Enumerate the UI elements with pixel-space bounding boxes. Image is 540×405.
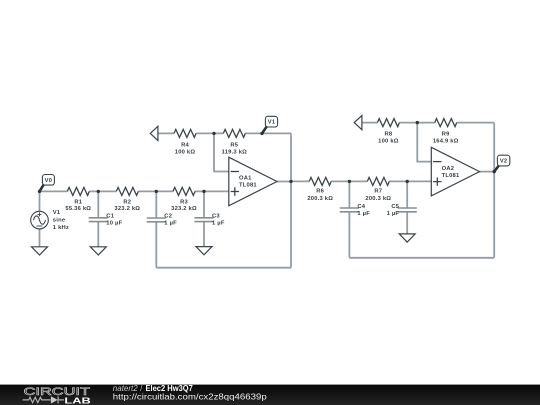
svg-text:LAB: LAB: [64, 396, 90, 405]
svg-text:200.3 kΩ: 200.3 kΩ: [307, 196, 333, 202]
svg-text:1 kHz: 1 kHz: [53, 225, 69, 231]
svg-text:OA2: OA2: [442, 166, 455, 172]
svg-text:C4: C4: [357, 204, 365, 210]
svg-text:V2: V2: [500, 159, 508, 165]
svg-text:R8: R8: [384, 132, 392, 138]
svg-text:1 µF: 1 µF: [212, 221, 225, 227]
svg-text:C2: C2: [164, 214, 172, 220]
svg-text:TL081: TL081: [239, 183, 257, 189]
svg-text:R4: R4: [181, 142, 189, 148]
svg-text:R1: R1: [74, 199, 82, 205]
svg-text:V1: V1: [268, 120, 276, 126]
svg-text:C5: C5: [391, 204, 399, 210]
svg-text:sine: sine: [53, 218, 66, 224]
svg-text:R3: R3: [180, 199, 188, 205]
svg-text:C3: C3: [212, 214, 220, 220]
svg-text:100 kΩ: 100 kΩ: [378, 138, 399, 144]
svg-text:10 µF: 10 µF: [106, 221, 122, 227]
svg-text:55.36 kΩ: 55.36 kΩ: [65, 206, 91, 212]
svg-text:R2: R2: [123, 199, 131, 205]
svg-text:OA1: OA1: [239, 176, 252, 182]
svg-text:R5: R5: [230, 142, 238, 148]
svg-text:TL081: TL081: [442, 173, 460, 179]
svg-text:V1: V1: [53, 210, 61, 216]
svg-text:323.2 kΩ: 323.2 kΩ: [171, 206, 197, 212]
svg-text:C1: C1: [106, 214, 114, 220]
svg-text:R9: R9: [442, 132, 450, 138]
svg-text:1 µF: 1 µF: [357, 211, 370, 217]
svg-text:1 µF: 1 µF: [387, 211, 400, 217]
svg-text:V0: V0: [45, 178, 53, 184]
svg-text:119.3 kΩ: 119.3 kΩ: [222, 150, 248, 156]
svg-text:http://circuitlab.com/cx2z8qq4: http://circuitlab.com/cx2z8qq46639p: [113, 392, 267, 401]
svg-text:200.3 kΩ: 200.3 kΩ: [365, 196, 391, 202]
svg-text:323.2 kΩ: 323.2 kΩ: [114, 206, 140, 212]
svg-text:100 kΩ: 100 kΩ: [175, 150, 196, 156]
svg-text:164.9 kΩ: 164.9 kΩ: [433, 138, 459, 144]
svg-text:1 µF: 1 µF: [164, 221, 177, 227]
svg-text:R7: R7: [374, 188, 382, 194]
svg-text:R6: R6: [316, 188, 324, 194]
